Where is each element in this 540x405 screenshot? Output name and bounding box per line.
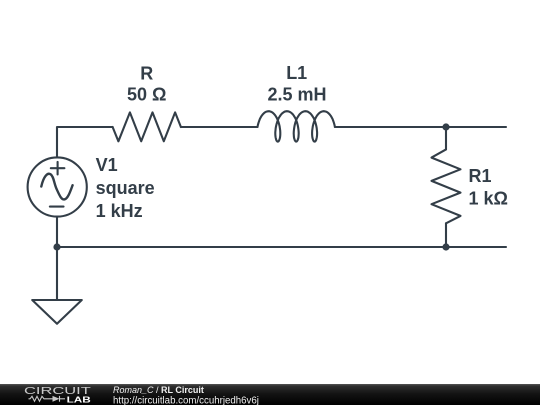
svg-text:50 Ω: 50 Ω bbox=[127, 85, 166, 105]
label R name bbox=[140, 64, 153, 84]
node A junction top-right bbox=[442, 123, 449, 130]
label L1 value 2.5 mH bbox=[267, 85, 326, 105]
wire V1 bottom lead bbox=[56, 217, 58, 247]
resistor R1 bbox=[432, 149, 461, 223]
inductor L1 bbox=[258, 111, 335, 141]
svg-text:LAB: LAB bbox=[67, 394, 91, 404]
wire top-left from V1 to R bbox=[57, 127, 113, 157]
footer title Roman_C / RL Circuit bbox=[113, 385, 259, 405]
svg-text:Roman_C / RL Circuit: Roman_C / RL Circuit bbox=[113, 385, 204, 395]
svg-text:R1: R1 bbox=[469, 166, 492, 186]
label L1 name bbox=[286, 63, 307, 83]
wire bottom from V1 node to right end bbox=[57, 246, 506, 248]
logo LAB text bbox=[67, 394, 91, 404]
resistor R1 top lead bbox=[445, 127, 447, 149]
resistor R1 bottom lead bbox=[445, 223, 447, 247]
ground bbox=[32, 300, 82, 324]
node junction bottom-right bbox=[442, 243, 449, 250]
label V1 type square bbox=[96, 178, 155, 198]
label V1 name bbox=[96, 155, 118, 175]
svg-text:1 kΩ: 1 kΩ bbox=[469, 188, 508, 208]
resistor R bbox=[113, 112, 181, 141]
svg-text:2.5 mH: 2.5 mH bbox=[267, 85, 326, 105]
wire L1 to node A and right end bbox=[335, 126, 506, 128]
footer bar bbox=[0, 384, 540, 405]
svg-text:square: square bbox=[96, 178, 155, 198]
label R value 50 ohm bbox=[127, 85, 166, 105]
node junction bottom-left bbox=[53, 243, 60, 250]
svg-text:R: R bbox=[140, 64, 153, 84]
wire ground lead bbox=[56, 247, 58, 300]
label R1 value 1 kohm bbox=[469, 188, 508, 208]
svg-text:L1: L1 bbox=[286, 63, 307, 83]
svg-text:V1: V1 bbox=[96, 155, 118, 175]
svg-text:1 kHz: 1 kHz bbox=[96, 201, 143, 221]
label V1 value 1 kHz bbox=[96, 201, 143, 221]
voltage source V1 bbox=[28, 157, 87, 216]
logo resistor-diode squiggle bbox=[29, 396, 66, 402]
label R1 name bbox=[469, 166, 492, 186]
wire R to L1 bbox=[181, 126, 258, 128]
svg-text:http://circuitlab.com/ccuhrjed: http://circuitlab.com/ccuhrjedh6v6j bbox=[113, 395, 259, 405]
logo CIRCUIT text bbox=[24, 386, 91, 397]
